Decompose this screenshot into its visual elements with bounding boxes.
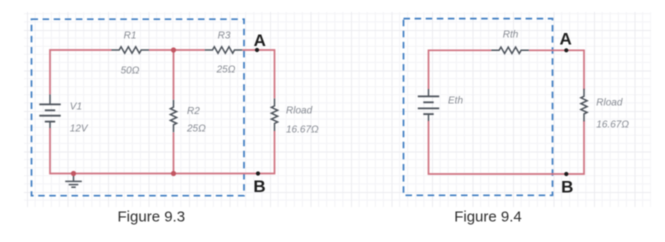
svg-text:R3: R3 <box>218 31 231 42</box>
svg-text:B: B <box>253 177 265 196</box>
svg-text:Figure 9.4: Figure 9.4 <box>454 209 522 226</box>
svg-text:A: A <box>560 30 572 49</box>
svg-text:Rth: Rth <box>503 29 519 40</box>
svg-text:Figure 9.3: Figure 9.3 <box>118 208 186 225</box>
svg-text:Eth: Eth <box>448 95 463 106</box>
svg-text:R2: R2 <box>187 106 200 117</box>
svg-text:25Ω: 25Ω <box>186 124 206 135</box>
svg-text:25Ω: 25Ω <box>216 65 236 76</box>
svg-text:Rload: Rload <box>596 97 623 108</box>
svg-text:12V: 12V <box>70 123 89 134</box>
svg-text:50Ω: 50Ω <box>121 65 140 76</box>
svg-text:A: A <box>254 31 266 50</box>
svg-text:R1: R1 <box>124 31 137 42</box>
svg-text:B: B <box>561 178 573 197</box>
svg-text:V1: V1 <box>70 102 82 113</box>
svg-text:16.67Ω: 16.67Ω <box>596 119 629 130</box>
svg-text:Rload: Rload <box>286 105 313 116</box>
svg-text:16.67Ω: 16.67Ω <box>286 125 319 136</box>
